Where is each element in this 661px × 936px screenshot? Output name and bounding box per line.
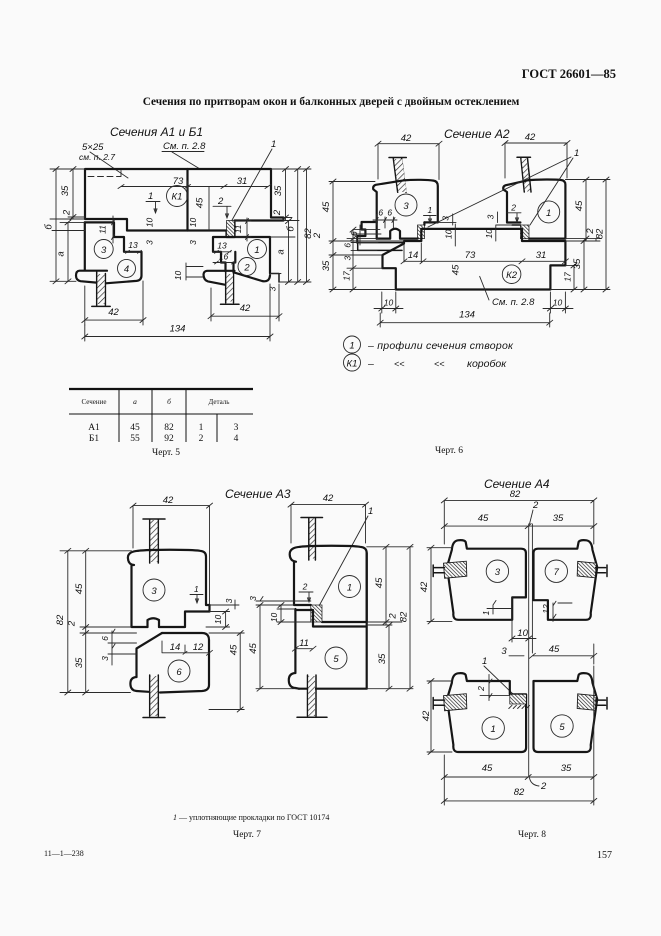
svg-text:82: 82 <box>514 787 525 798</box>
joint cover strip (vertical) <box>529 524 533 776</box>
circled 1 <box>248 240 267 259</box>
svg-text:3: 3 <box>188 240 198 245</box>
svg-text:45: 45 <box>374 577 385 588</box>
svg-text:3: 3 <box>486 214 496 219</box>
svg-text:82: 82 <box>595 228 606 239</box>
circled 1 <box>538 201 560 223</box>
svg-text:3: 3 <box>234 423 239 433</box>
svg-text:К1: К1 <box>172 192 183 203</box>
svg-text:16: 16 <box>219 252 229 262</box>
svg-text:10: 10 <box>173 271 183 281</box>
svg-text:2: 2 <box>243 262 250 273</box>
svg-text:82: 82 <box>510 489 521 500</box>
svg-text:а: а <box>276 249 287 254</box>
svg-text:а: а <box>133 397 137 406</box>
svg-text:13: 13 <box>128 240 138 250</box>
svg-text:2: 2 <box>62 209 73 216</box>
svg-text:45: 45 <box>549 644 560 655</box>
svg-text:45: 45 <box>229 644 240 655</box>
svg-text:3: 3 <box>268 286 278 291</box>
svg-text:42: 42 <box>163 495 174 506</box>
svg-text:3: 3 <box>100 656 110 661</box>
svg-text:5: 5 <box>559 722 565 733</box>
svg-text:6: 6 <box>176 667 182 678</box>
right pair: left dims 3/10/45 <box>256 601 311 689</box>
svg-text:3: 3 <box>151 586 157 597</box>
svg-text:Сечение А2: Сечение А2 <box>444 127 510 141</box>
svg-text:Сечения А1 и Б1: Сечения А1 и Б1 <box>110 125 203 139</box>
svg-text:3: 3 <box>343 255 353 260</box>
sash 3 glass bar <box>389 158 406 193</box>
circled K1 <box>167 186 188 207</box>
svg-text:1: 1 <box>491 724 496 735</box>
leader of note 5x25 <box>90 152 128 178</box>
svg-text:Б1: Б1 <box>89 434 99 444</box>
svg-text:1: 1 <box>546 208 551 219</box>
svg-text:ГОСТ 26601—85: ГОСТ 26601—85 <box>522 67 616 81</box>
svg-text:б: б <box>167 397 171 406</box>
circled 4 <box>118 259 136 277</box>
left pair: upper sash bottom notch <box>148 618 160 627</box>
svg-text:1: 1 <box>254 245 259 256</box>
svg-text:55: 55 <box>130 434 140 444</box>
right pair: right dims 45/2/82/35 <box>367 547 413 689</box>
sash 3 anchor screw <box>433 565 444 577</box>
bottom dim 42 left <box>85 281 143 325</box>
svg-text:2: 2 <box>476 686 486 692</box>
svg-text:– профили сечения створок: – профили сечения створок <box>367 340 514 352</box>
table verticals <box>119 389 217 442</box>
svg-text:31: 31 <box>237 176 248 187</box>
right dim chain <box>270 169 311 282</box>
svg-text:3: 3 <box>224 598 234 603</box>
svg-text:2: 2 <box>302 582 308 592</box>
svg-text:6: 6 <box>378 208 383 218</box>
bottom dim 134 <box>377 313 553 327</box>
frame K1 outline <box>85 169 284 237</box>
right sash sill <box>204 271 235 285</box>
svg-text:17: 17 <box>341 271 351 281</box>
svg-text:82: 82 <box>164 423 174 433</box>
svg-text:31: 31 <box>536 250 547 261</box>
svg-text:157: 157 <box>597 850 612 861</box>
svg-text:10: 10 <box>213 615 223 625</box>
svg-text:6: 6 <box>343 243 353 248</box>
svg-text:134: 134 <box>170 324 186 335</box>
svg-text:1: 1 <box>148 191 153 202</box>
svg-text:10: 10 <box>188 218 198 228</box>
svg-text:1: 1 <box>482 656 487 667</box>
svg-text:Черт. 8: Черт. 8 <box>518 830 546 840</box>
left pair: left dims 45/2/82/35 <box>60 551 137 693</box>
sash 1 glass bar <box>517 157 531 192</box>
svg-text:3: 3 <box>101 245 107 256</box>
svg-text:1: 1 <box>368 506 373 517</box>
svg-text:К2: К2 <box>506 270 518 281</box>
sash 1 body <box>503 180 565 239</box>
gasket roughness ticks <box>509 705 530 708</box>
svg-text:14: 14 <box>170 642 181 653</box>
svg-text:1: 1 <box>347 583 352 594</box>
circled 5 <box>325 647 347 669</box>
circled 3 <box>143 579 165 601</box>
svg-text:45: 45 <box>451 264 462 275</box>
right pair: upper glass bar <box>301 518 323 561</box>
svg-text:Черт. 5: Черт. 5 <box>152 448 180 458</box>
sash 3 lug hatch <box>444 561 467 578</box>
svg-text:35: 35 <box>553 513 564 524</box>
svg-text:1: 1 <box>481 610 491 615</box>
svg-text:2: 2 <box>199 434 204 444</box>
K1 dashed liner <box>88 170 121 177</box>
svg-text:45: 45 <box>321 201 332 212</box>
left pair: right dims 3/10/45 <box>206 605 244 710</box>
circled 3 <box>486 560 508 582</box>
svg-text:45: 45 <box>130 423 140 433</box>
sash 3 body <box>373 180 438 239</box>
svg-text:2: 2 <box>540 781 547 792</box>
svg-text:а: а <box>56 251 67 256</box>
left sash sill <box>76 271 107 283</box>
circled 1 <box>482 717 504 739</box>
svg-text:5: 5 <box>333 654 339 665</box>
svg-text:3: 3 <box>441 216 451 221</box>
sash 1 (lower-left) body <box>447 673 526 752</box>
circled K2 <box>502 265 521 284</box>
svg-text:3: 3 <box>495 567 501 578</box>
svg-text:45: 45 <box>74 583 85 594</box>
svg-text:73: 73 <box>173 176 184 187</box>
svg-text:б: б <box>286 226 297 232</box>
circled 1 <box>339 576 361 598</box>
leader from label 1 to gasket <box>232 149 273 221</box>
svg-text:13: 13 <box>217 241 227 251</box>
left pair: lower sash bottom lug <box>130 677 148 692</box>
svg-text:2: 2 <box>66 620 77 627</box>
svg-text:1: 1 <box>271 139 276 150</box>
svg-text:Черт. 6: Черт. 6 <box>435 446 463 456</box>
svg-text:11: 11 <box>299 638 309 649</box>
left dim chain A2 <box>329 182 404 290</box>
svg-text:42: 42 <box>108 307 119 318</box>
circled 3 <box>395 194 417 216</box>
legend circled 1 <box>344 336 361 353</box>
right pair: lower glass bar <box>297 675 327 717</box>
svg-text:1 — уплотняющие прокладки по Г: 1 — уплотняющие прокладки по ГОСТ 10174 <box>173 813 329 822</box>
svg-text:–<<<<коробок: –<<<<коробок <box>367 358 507 370</box>
sash 1 gasket <box>510 694 527 704</box>
right glass base bar <box>221 303 240 305</box>
left pair: lower glass bar <box>143 675 165 718</box>
svg-text:Сечение: Сечение <box>82 398 107 406</box>
right pair: upper sash gasket <box>311 605 322 622</box>
svg-text:45: 45 <box>195 197 206 208</box>
sash 7 anchor screw <box>596 565 608 577</box>
svg-text:92: 92 <box>164 434 174 444</box>
left pair: upper sash 3 body <box>138 550 210 627</box>
svg-text:134: 134 <box>459 310 475 321</box>
sash 7 (upper-right) body <box>534 540 598 620</box>
svg-text:35: 35 <box>572 258 583 269</box>
right pair: upper sash 1 body <box>300 546 367 622</box>
circled 2 <box>238 258 256 276</box>
left sash left edge <box>84 222 86 269</box>
svg-text:1: 1 <box>574 148 579 159</box>
sash 1 gasket <box>520 225 529 239</box>
sash 1 lug hatch <box>444 694 467 711</box>
bottom dim 134 <box>85 284 270 341</box>
svg-text:6: 6 <box>100 636 110 641</box>
circled 7 <box>545 560 567 582</box>
svg-text:К1: К1 <box>347 358 358 369</box>
svg-text:1: 1 <box>428 205 433 215</box>
dim line 73/31 <box>121 181 268 230</box>
svg-text:10: 10 <box>145 218 155 228</box>
svg-text:73: 73 <box>465 250 476 261</box>
sash 3 bottom with notch <box>377 222 425 238</box>
svg-text:17: 17 <box>562 272 572 282</box>
left sash detail 3 top profile <box>85 222 142 283</box>
svg-text:10: 10 <box>269 613 279 623</box>
left glass base bar <box>92 305 110 307</box>
svg-text:3: 3 <box>145 240 155 245</box>
svg-text:42: 42 <box>419 581 430 592</box>
left pair: upper sash left side with lug <box>128 551 148 627</box>
circled 6 <box>168 660 190 682</box>
svg-text:45: 45 <box>574 200 585 211</box>
svg-text:35: 35 <box>321 260 332 271</box>
right dim chain A2 <box>550 180 610 290</box>
svg-text:35: 35 <box>74 657 85 668</box>
svg-text:35: 35 <box>60 185 71 196</box>
sash 3 left lower tail <box>357 222 376 243</box>
svg-text:14: 14 <box>408 250 419 261</box>
svg-text:Черт. 7: Черт. 7 <box>233 830 261 840</box>
svg-text:6: 6 <box>349 231 359 236</box>
right sash edge step <box>270 274 279 283</box>
svg-text:35: 35 <box>561 763 572 774</box>
left sash glass pane <box>97 272 106 305</box>
svg-text:42: 42 <box>240 303 251 314</box>
sash 3 (upper-left) body <box>447 540 526 620</box>
dim 42 left upper <box>427 545 452 624</box>
svg-text:12: 12 <box>541 604 551 614</box>
svg-text:10: 10 <box>553 298 563 308</box>
left pair: lower sash bevel top-left <box>137 633 163 677</box>
svg-text:4: 4 <box>124 264 129 275</box>
svg-text:11—1—238: 11—1—238 <box>44 849 84 858</box>
frame K2 outline <box>383 229 566 290</box>
svg-text:2: 2 <box>217 196 224 207</box>
left dim chain <box>50 169 85 281</box>
svg-text:3: 3 <box>403 201 409 212</box>
right sash detail 1 top <box>213 237 270 274</box>
svg-text:42: 42 <box>323 493 334 504</box>
sash 3 gasket <box>418 225 425 239</box>
right sash bottom slant <box>234 272 271 281</box>
sash 7 lug hatch <box>577 561 596 577</box>
svg-text:12: 12 <box>193 642 204 653</box>
sash 1 anchor screw <box>433 698 444 710</box>
svg-text:35: 35 <box>273 185 284 196</box>
right sash glass pane <box>226 272 234 303</box>
table header separator <box>69 413 253 415</box>
svg-text:2: 2 <box>312 232 323 239</box>
svg-text:42: 42 <box>525 132 536 143</box>
svg-text:б: б <box>44 224 55 230</box>
svg-text:См. п. 2.8: См. п. 2.8 <box>163 141 206 152</box>
dim 42 left lower <box>427 679 452 755</box>
circled 3 <box>94 240 113 259</box>
gasket hatch on K1 <box>227 221 235 238</box>
svg-text:35: 35 <box>377 653 388 664</box>
svg-text:Сечения по притворам окон и ба: Сечения по притворам окон и балконных дв… <box>143 96 520 108</box>
svg-text:45: 45 <box>478 513 489 524</box>
svg-text:Сечение А3: Сечение А3 <box>225 487 291 501</box>
table top rule <box>69 388 253 390</box>
right pair: lower sash 5 body <box>295 553 366 689</box>
svg-text:См. п. 2.8: См. п. 2.8 <box>492 297 535 308</box>
svg-text:45: 45 <box>248 643 259 654</box>
K1 rebate vertical <box>186 169 188 231</box>
svg-text:10: 10 <box>443 229 453 239</box>
sash 5 lug hatch <box>577 694 596 710</box>
dim line 14/73/31 <box>401 243 568 264</box>
svg-text:2: 2 <box>532 500 539 511</box>
svg-text:82: 82 <box>399 611 410 622</box>
left pair: lower sash 6 body <box>160 633 209 693</box>
svg-text:45: 45 <box>482 763 493 774</box>
svg-text:11: 11 <box>98 225 108 234</box>
svg-text:82: 82 <box>55 614 66 625</box>
right pair: lower sash left side <box>289 609 299 689</box>
right pair: upper sash left side with lug <box>290 547 311 605</box>
svg-text:3: 3 <box>501 646 507 657</box>
sash 5 (lower-right) body <box>534 673 598 752</box>
circled 5 <box>551 715 573 737</box>
svg-text:42: 42 <box>421 710 432 721</box>
svg-text:Деталь: Деталь <box>209 398 230 406</box>
svg-text:10: 10 <box>517 628 528 639</box>
svg-text:42: 42 <box>401 133 412 144</box>
K2 drip tongue <box>358 243 404 251</box>
left pair: upper glass bar <box>143 519 165 563</box>
legend circled K1 <box>344 354 361 371</box>
svg-text:3: 3 <box>248 596 258 601</box>
svg-text:7: 7 <box>554 567 560 578</box>
svg-text:2: 2 <box>510 202 516 212</box>
svg-text:2: 2 <box>388 613 399 620</box>
svg-text:1: 1 <box>194 584 199 594</box>
svg-text:10: 10 <box>484 229 494 239</box>
svg-text:2: 2 <box>272 209 283 216</box>
bottom dim 42 right <box>211 284 279 321</box>
sash 5 anchor screw <box>596 698 608 710</box>
svg-text:4: 4 <box>234 434 239 444</box>
svg-text:6: 6 <box>387 208 392 218</box>
svg-text:А1: А1 <box>88 423 100 433</box>
svg-text:1: 1 <box>199 423 204 433</box>
svg-text:11: 11 <box>233 224 243 233</box>
svg-text:1: 1 <box>349 340 354 351</box>
